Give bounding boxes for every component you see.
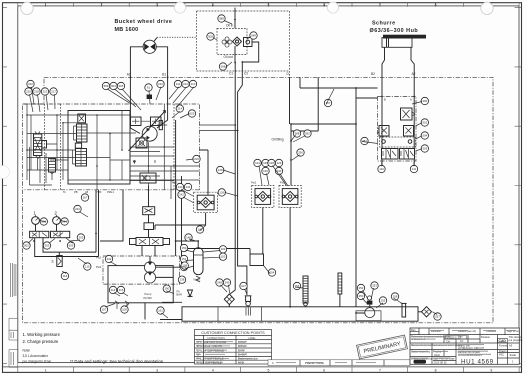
- svg-text:588: 588: [295, 131, 300, 135]
- cartridge valve V2: [73, 143, 87, 166]
- suction filter dashed box3: [279, 185, 301, 207]
- svg-text:258: 258: [393, 294, 398, 298]
- structure line right of accumulator: [182, 176, 251, 267]
- wires pump outputs: [150, 256, 182, 277]
- svg-text:CAD: CAD: [499, 339, 507, 343]
- svg-text:C1: C1: [229, 72, 233, 76]
- svg-text:Rev: Rev: [458, 335, 463, 339]
- svg-text:104: 104: [182, 263, 187, 267]
- solenoid valve DV1 small pilot box upper: [143, 207, 155, 215]
- svg-text:Note!: Note!: [23, 349, 31, 353]
- svg-text:3,5 L Accumulator: 3,5 L Accumulator: [23, 354, 49, 358]
- svg-text:Pw3: Pw3: [96, 265, 102, 269]
- suction break marks: [115, 301, 129, 309]
- svg-text:1. Working pressure: 1. Working pressure: [23, 332, 61, 337]
- svg-text:250: 250: [359, 294, 364, 298]
- gauge G1: [32, 210, 40, 231]
- motor M1 bucket wheel: [143, 38, 157, 54]
- svg-text:129: 129: [277, 161, 282, 165]
- svg-text:203: 203: [78, 235, 83, 239]
- svg-text:9: 9: [490, 368, 492, 372]
- double standpipe wires: [96, 190, 123, 257]
- logo blob: [414, 360, 427, 364]
- wire pump drain down: [145, 302, 182, 319]
- svg-text:Drawn: Drawn: [499, 349, 507, 353]
- svg-text:Rev: Rev: [411, 328, 416, 332]
- relief valve RV1: [377, 126, 389, 137]
- breather C2: [246, 296, 251, 302]
- svg-text:Oil out: Oil out: [224, 55, 233, 59]
- svg-text:A: A: [410, 98, 412, 102]
- svg-text:303: 303: [422, 146, 427, 150]
- small filter F3: [49, 159, 56, 174]
- svg-text:141: 141: [186, 185, 191, 189]
- svg-text:222: 222: [28, 82, 33, 86]
- wire motor A1: [130, 47, 143, 134]
- svg-text:255: 255: [381, 298, 386, 302]
- svg-text:HGO: HGO: [434, 353, 440, 357]
- manifold dashed enclosure: [24, 104, 200, 190]
- wires gauges to pump box: [35, 238, 108, 257]
- spool box S2: [400, 149, 415, 160]
- selector valve SV1: [30, 231, 49, 237]
- schurre valve block outline: [378, 97, 417, 162]
- svg-text:210: 210: [158, 82, 163, 86]
- svg-text:A1: A1: [127, 73, 131, 77]
- svg-text:249: 249: [225, 280, 230, 284]
- suction filter dashed box1: [194, 192, 218, 213]
- pump control valve blocks: [131, 117, 142, 126]
- svg-text:126: 126: [263, 169, 268, 173]
- svg-text:7: 7: [379, 3, 381, 7]
- svg-text:154: 154: [270, 270, 275, 274]
- svg-text:215: 215: [119, 288, 124, 292]
- small junction box JB: [250, 254, 264, 266]
- wire top supply drop: [234, 8, 236, 63]
- wire right riser P: [300, 77, 378, 307]
- svg-text:116: 116: [63, 274, 68, 278]
- svg-text:161: 161: [158, 308, 163, 312]
- oil filling unit dashed enclosure: [197, 11, 290, 71]
- svg-text:217: 217: [51, 89, 56, 93]
- svg-text:592: 592: [305, 131, 310, 135]
- svg-text:Oil filling: Oil filling: [272, 138, 284, 142]
- svg-text:1: 1: [45, 368, 47, 372]
- filter diamond C1: [224, 294, 234, 305]
- svg-text:220: 220: [26, 89, 31, 93]
- svg-text:C2: C2: [244, 72, 248, 76]
- test coupling TC1: [51, 252, 63, 266]
- svg-text:138: 138: [180, 278, 185, 282]
- TITLE BLOCK: [410, 328, 523, 366]
- svg-text:B: B: [384, 98, 386, 102]
- svg-text:CH: CH: [446, 339, 450, 343]
- wire accumulator feed: [176, 240, 199, 242]
- svg-text:505: 505: [69, 243, 74, 247]
- svg-text:3: 3: [156, 368, 158, 372]
- svg-text:588: 588: [219, 16, 224, 20]
- svg-text:PB: PB: [74, 190, 78, 194]
- svg-text:6: 6: [323, 3, 325, 7]
- svg-text:PML1: PML1: [107, 190, 114, 194]
- svg-text:108: 108: [122, 307, 127, 311]
- svg-text:103: 103: [221, 255, 226, 259]
- svg-text:124: 124: [255, 161, 260, 165]
- svg-text:Note1: Note1: [194, 277, 201, 281]
- svg-text:2: 2: [100, 3, 102, 7]
- svg-text:142: 142: [179, 193, 184, 197]
- svg-text:213: 213: [191, 82, 196, 86]
- svg-text:223: 223: [43, 89, 48, 93]
- svg-text:126: 126: [219, 190, 224, 194]
- svg-text:2. Charge pressure: 2. Charge pressure: [23, 339, 60, 344]
- wire oil out to C2: [238, 42, 259, 92]
- svg-text:257: 257: [435, 314, 440, 318]
- wire D drop dashed upper: [289, 71, 291, 77]
- oil filling inner dashed box: [217, 28, 247, 54]
- svg-text:A2: A2: [412, 72, 416, 76]
- main pump P1: [129, 95, 166, 151]
- tank T1: [182, 307, 418, 321]
- svg-text:** Data and settings: See te: ** Data and settings: See technical docu…: [70, 359, 164, 364]
- CUSTOMER CONNECTION POINTS TABLE: [195, 330, 272, 365]
- svg-text:3: 3: [156, 3, 158, 7]
- svg-text:605: 605: [119, 84, 124, 88]
- svg-text:our property: our property: [509, 338, 524, 342]
- svg-text:Scale: Scale: [510, 353, 517, 357]
- wire manifold to C1 C2: [200, 125, 238, 131]
- spool box S1: [382, 149, 399, 160]
- svg-text:Pw2: Pw2: [251, 180, 257, 184]
- manifold inner solid box: [68, 111, 130, 185]
- svg-text:212: 212: [183, 82, 188, 86]
- svg-text:4: 4: [212, 3, 214, 7]
- svg-text:140: 140: [178, 185, 183, 189]
- svg-text:150: 150: [182, 246, 187, 250]
- svg-text:Pw2: Pw2: [96, 256, 102, 260]
- svg-text:128: 128: [269, 161, 274, 165]
- svg-text:MB 1600: MB 1600: [115, 27, 139, 33]
- svg-text:BAR: BAR: [177, 293, 182, 297]
- wire C2 drop: [238, 92, 247, 295]
- level gauge LG1: [338, 273, 342, 307]
- manifold internal wires: [27, 104, 200, 199]
- wire box1 return: [155, 213, 206, 230]
- TITLE TEXTS: [23, 19, 419, 364]
- svg-text:242: 242: [75, 207, 80, 211]
- gauge G2: [53, 210, 61, 231]
- check valve CV1: [188, 290, 193, 296]
- svg-text:7: 7: [379, 368, 381, 372]
- motor pump unit on tank: [356, 301, 381, 321]
- svg-text:8: 8: [435, 368, 437, 372]
- frame zone numbers top: [45, 3, 493, 7]
- svg-text:128: 128: [218, 168, 223, 172]
- svg-text:102: 102: [221, 247, 226, 251]
- svg-text:A3: A3: [509, 343, 513, 347]
- svg-text:300: 300: [422, 99, 427, 103]
- svg-text:6: 6: [323, 368, 325, 372]
- svg-text:4: 4: [212, 368, 214, 372]
- BALLOONS: [23, 15, 441, 320]
- svg-text:242: 242: [107, 257, 112, 261]
- svg-text:Schurre: Schurre: [372, 20, 396, 26]
- bottom ruler line: [45, 368, 493, 372]
- punch holes: [21, 2, 33, 14]
- check valve diamond oil unit: [233, 37, 242, 46]
- svg-text:0.1: 0.1: [460, 339, 464, 343]
- svg-text:604: 604: [111, 84, 116, 88]
- svg-text:214: 214: [177, 106, 182, 110]
- wire D line: [290, 77, 357, 185]
- svg-text:107: 107: [102, 307, 107, 311]
- left margin vertical text marks: [11, 263, 16, 297]
- return diffuser RD1: [401, 303, 407, 317]
- pump unit dashed enclosure: [103, 256, 180, 284]
- svg-text:253: 253: [372, 283, 377, 287]
- svg-text:211: 211: [176, 82, 181, 86]
- wire right riser x318: [291, 77, 318, 131]
- svg-text:609: 609: [104, 84, 109, 88]
- svg-text:Format: Format: [499, 343, 507, 347]
- svg-text:B2: B2: [371, 72, 375, 76]
- svg-text:548: 548: [251, 33, 256, 37]
- directional valve DV2: [130, 238, 170, 246]
- orifice row dashed: [380, 137, 416, 147]
- svg-text:1: 1: [45, 3, 47, 7]
- svg-text:111: 111: [412, 167, 417, 171]
- svg-text:502: 502: [24, 243, 29, 247]
- svg-text:148: 148: [186, 235, 191, 239]
- svg-text:214: 214: [111, 288, 116, 292]
- svg-text:Ø63/36–300 Hub: Ø63/36–300 Hub: [370, 28, 419, 34]
- manifold right edge wire: [175, 120, 177, 256]
- cartridge valve V1: [74, 114, 88, 142]
- wire C1 drop: [229, 63, 235, 295]
- svg-text:267: 267: [83, 195, 88, 199]
- svg-text:2013 08 30: 2013 08 30: [434, 360, 448, 364]
- svg-text:A5: A5: [85, 190, 89, 194]
- revision strip left of title block: [268, 360, 410, 366]
- svg-text:219: 219: [194, 157, 199, 161]
- wire pilot chain: [142, 185, 155, 256]
- selector valve SV2: [51, 231, 70, 237]
- svg-text:503: 503: [45, 243, 50, 247]
- svg-text:218: 218: [34, 89, 39, 93]
- svg-text:CONNECTIONS: CONNECTIONS: [207, 337, 225, 340]
- svg-text:8: 8: [435, 3, 437, 7]
- filter F1: [34, 132, 47, 159]
- svg-text:LABEL: LABEL: [248, 337, 256, 340]
- balloon leader lines: [28, 21, 437, 319]
- wire manifold to box1: [200, 150, 209, 195]
- relief valve RV2: [404, 126, 415, 137]
- wires block ports A B: [382, 159, 414, 166]
- machine boundary dashed: [23, 77, 493, 322]
- svg-text:107: 107: [241, 284, 246, 288]
- svg-text:508: 508: [208, 34, 213, 38]
- wire cylinder B2: [382, 47, 385, 96]
- wire box3 to tank: [289, 208, 291, 307]
- svg-text:568: 568: [221, 64, 226, 68]
- svg-text:PM3: PM3: [172, 180, 178, 184]
- svg-text:Bucket wheel drive: Bucket wheel drive: [115, 19, 173, 25]
- left margin revision boxes: [9, 318, 18, 330]
- wire cylinder A2: [411, 47, 414, 96]
- svg-text:256: 256: [298, 150, 303, 154]
- svg-text:Division: Division: [481, 335, 491, 339]
- svg-text:HYDRAULIC CIRCUIT: HYDRAULIC CIRCUIT: [458, 346, 485, 350]
- svg-text:PA 500: PA 500: [144, 296, 153, 300]
- cylinder CYL1 schurre: [382, 35, 426, 48]
- svg-text:Oil in: Oil in: [226, 24, 233, 28]
- breather check diamond CV2: [418, 307, 432, 317]
- pump unit solid box: [108, 266, 173, 303]
- svg-text:225: 225: [190, 111, 195, 115]
- PRELIMINARY stamp: [357, 335, 408, 359]
- svg-text:248: 248: [217, 280, 222, 284]
- svg-text:301: 301: [422, 120, 427, 124]
- svg-text:5: 5: [267, 368, 269, 372]
- svg-text:FEC: FEC: [499, 353, 504, 357]
- svg-text:190: 190: [164, 287, 169, 291]
- block internal risers: [382, 97, 414, 149]
- hand pump circles U-oil: [222, 37, 232, 47]
- pump PA500 circle 2: [144, 272, 155, 283]
- svg-text:304: 304: [422, 133, 427, 137]
- svg-text:252: 252: [359, 286, 364, 290]
- pilot valve block lower: [140, 173, 156, 183]
- wire motor B1: [156, 47, 167, 128]
- accumulator AC1: [194, 241, 204, 282]
- svg-text:125: 125: [263, 161, 268, 165]
- svg-text:HU1 4569: HU1 4569: [461, 359, 494, 366]
- pump PA500 circle 1: [144, 262, 155, 273]
- svg-text:110: 110: [379, 167, 384, 171]
- thermometer TH1: [303, 276, 308, 307]
- case drain dotted: [157, 36, 197, 38]
- suction filter dashed box2: [252, 185, 274, 207]
- svg-text:115: 115: [85, 264, 90, 268]
- svg-text:61: 61: [147, 85, 151, 89]
- svg-text:CUSTOMER CONNECTION POINTS: CUSTOMER CONNECTION POINTS: [201, 331, 265, 335]
- svg-text:5: 5: [267, 3, 269, 7]
- orifice box oil unit: [244, 38, 253, 47]
- svg-text:B1: B1: [162, 73, 166, 77]
- charge relief block: [136, 138, 147, 148]
- svg-text:pre charged to 8 bar: pre charged to 8 bar: [23, 359, 53, 363]
- svg-text:FLUGOM/BVDM554: FLUGOM/BVDM554: [458, 353, 482, 357]
- wire box2 stub: [262, 208, 264, 255]
- pilot valve PV1: [401, 108, 416, 120]
- svg-text:2: 2: [100, 368, 102, 372]
- svg-text:Pump: Pump: [145, 292, 152, 296]
- solenoid valve DV1 small pilot box lower: [144, 223, 154, 230]
